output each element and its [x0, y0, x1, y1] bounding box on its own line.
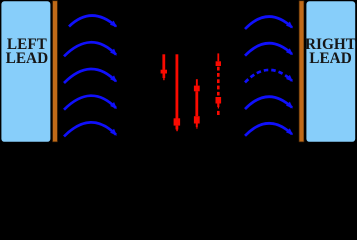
left lead electrode — [0, 0, 51, 143]
left hopping arc 5 — [64, 122, 116, 136]
right tunnel barrier (brown strip) — [299, 1, 304, 142]
right hopping arc 5 — [245, 123, 292, 135]
left hopping arc 2 — [64, 42, 116, 56]
red transition arrow 4 (double-headed, dashed) — [216, 53, 222, 115]
right hopping arc 1 — [245, 17, 292, 29]
red transition arrow 3 (double-headed, solid) — [194, 79, 200, 129]
svg-text:LEAD: LEAD — [6, 50, 49, 67]
right hopping arc 2 — [245, 43, 292, 55]
left hopping arc 3 — [64, 69, 116, 83]
red transition arrow 1 (short, down) — [161, 54, 167, 80]
left tunnel barrier (brown strip) — [53, 1, 58, 142]
right hopping arc 3 (dashed) — [245, 70, 292, 82]
left hopping arc 1 — [69, 16, 116, 27]
right hopping arc 4 — [245, 97, 292, 109]
left hopping arc 4 — [64, 96, 116, 110]
svg-text:LEAD: LEAD — [309, 50, 352, 67]
red transition arrow 2 (long, down) — [174, 54, 181, 131]
right lead electrode — [305, 0, 356, 143]
